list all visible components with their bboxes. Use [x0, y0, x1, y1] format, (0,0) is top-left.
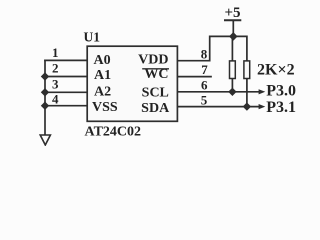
- IC U1 body AT24C02: [87, 46, 177, 121]
- wire resistor R1 top lead: [231, 36, 233, 61]
- node junction +5 rail: [229, 32, 238, 41]
- pin label WC with overline: [142, 67, 169, 82]
- wire pin2 A1: [45, 76, 88, 78]
- svg-text:3: 3: [52, 77, 59, 92]
- wire pin7 WC stub: [177, 76, 211, 78]
- svg-text:A0: A0: [94, 53, 111, 68]
- node junction pin2 bus: [41, 72, 49, 80]
- ground: [40, 135, 50, 145]
- svg-text:AT24C02: AT24C02: [85, 125, 142, 140]
- resistor R1: [230, 61, 236, 79]
- wire pin4 VSS: [45, 105, 88, 107]
- svg-text:SDA: SDA: [141, 101, 170, 116]
- svg-text:SCL: SCL: [142, 85, 169, 100]
- power +5 symbol: [224, 5, 241, 21]
- wire pin6 SCL to P3.0: [177, 91, 259, 93]
- node junction pin3 bus: [41, 88, 49, 96]
- svg-text:1: 1: [52, 45, 59, 60]
- svg-text:6: 6: [201, 78, 208, 93]
- svg-text:2K×2: 2K×2: [257, 62, 295, 79]
- svg-text:+5: +5: [224, 5, 240, 21]
- node junction pin4 bus: [41, 102, 49, 110]
- node junction R2 / SDA: [243, 102, 251, 110]
- svg-text:P3.0: P3.0: [266, 82, 296, 99]
- wire pin8 VDD to +5 rail: [177, 36, 247, 61]
- svg-text:U1: U1: [84, 29, 101, 44]
- svg-text:P3.1: P3.1: [266, 99, 296, 116]
- svg-text:VSS: VSS: [92, 100, 118, 115]
- wire ground bus vertical: [44, 60, 46, 134]
- svg-text:A1: A1: [94, 68, 111, 83]
- wire resistor R1 bottom lead: [231, 79, 233, 92]
- wire pin1 A0: [45, 59, 88, 61]
- svg-text:7: 7: [201, 62, 208, 77]
- arrow to P3.0: [259, 89, 266, 94]
- svg-text:5: 5: [201, 92, 208, 107]
- svg-text:2: 2: [52, 60, 59, 75]
- wire +5 drop: [232, 20, 234, 36]
- wire resistor R2 bottom lead: [246, 79, 248, 107]
- svg-text:A2: A2: [94, 85, 111, 100]
- svg-text:VDD: VDD: [138, 52, 168, 67]
- arrow to P3.1: [259, 104, 266, 109]
- wire pin5 SDA to P3.1: [177, 106, 259, 108]
- wire pin3 A2: [45, 91, 88, 93]
- svg-text:8: 8: [201, 46, 208, 61]
- svg-text:4: 4: [52, 92, 59, 107]
- resistor R2: [244, 61, 250, 79]
- node junction R1 / SCL: [228, 88, 236, 96]
